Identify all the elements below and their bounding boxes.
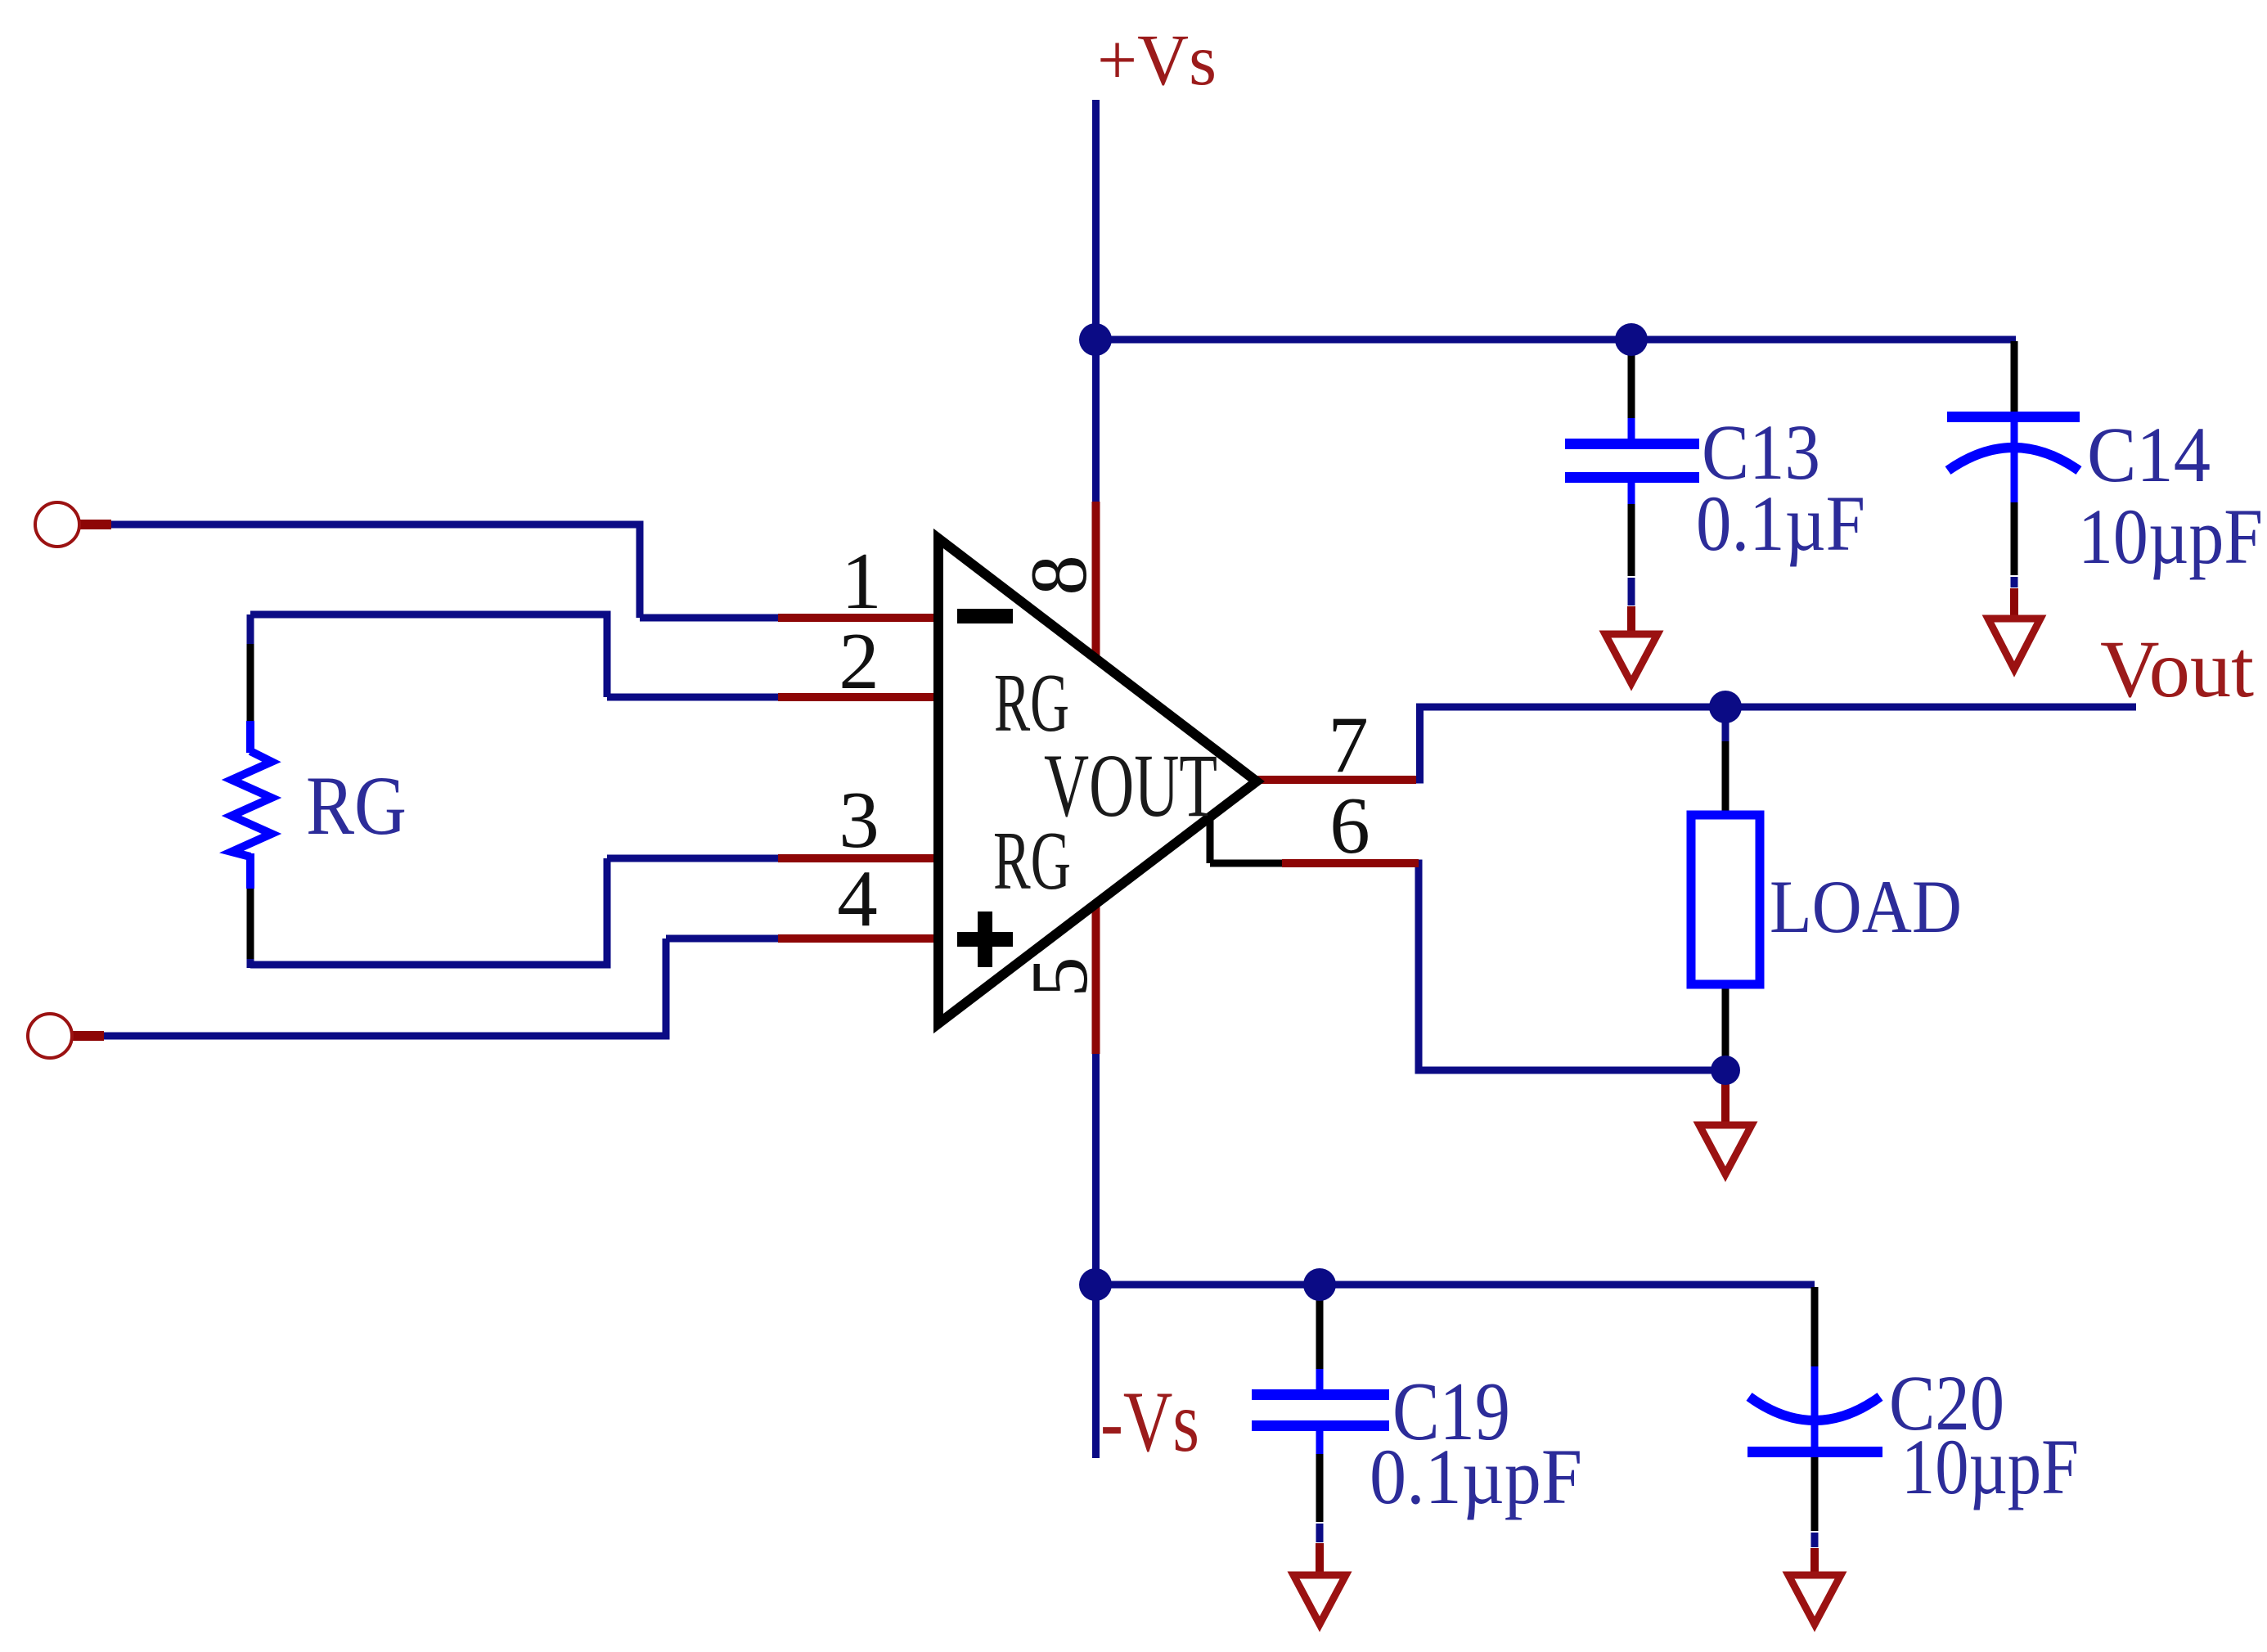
svg-text:C14: C14	[2087, 411, 2211, 498]
svg-text:0.1µF: 0.1µF	[1696, 479, 1865, 567]
svg-text:RG: RG	[306, 759, 407, 853]
svg-text:RG: RG	[993, 815, 1071, 907]
svg-text:3: 3	[839, 776, 879, 865]
svg-text:10µpF: 10µpF	[1901, 1423, 2079, 1510]
svg-text:2: 2	[839, 617, 879, 706]
svg-text:+Vs: +Vs	[1097, 20, 1217, 101]
svg-text:6: 6	[1329, 781, 1370, 871]
svg-text:LOAD: LOAD	[1770, 865, 1962, 948]
svg-text:5: 5	[1015, 957, 1104, 997]
svg-text:7: 7	[1328, 700, 1369, 790]
svg-text:Vout: Vout	[2100, 623, 2254, 714]
svg-text:10µpF: 10µpF	[2078, 493, 2263, 580]
svg-text:4: 4	[837, 854, 878, 943]
svg-text:8: 8	[1014, 555, 1104, 596]
svg-text:0.1µpF: 0.1µpF	[1370, 1433, 1582, 1520]
svg-text:-Vs: -Vs	[1100, 1374, 1199, 1470]
svg-text:1: 1	[841, 537, 882, 626]
